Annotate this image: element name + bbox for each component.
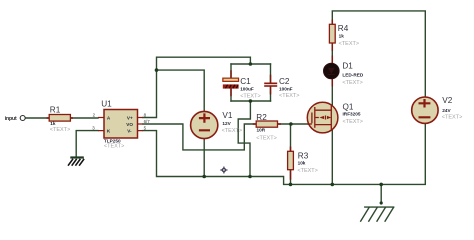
C2 pin stubs	[270, 75, 272, 95]
wire C2 legs	[270, 64, 272, 101]
svg-text:<TEXT>: <TEXT>	[297, 168, 317, 174]
wire cap ground zigzag	[238, 101, 250, 177]
svg-text:<TEXT>: <TEXT>	[279, 93, 299, 99]
svg-text:R1: R1	[50, 106, 61, 115]
svg-text:<TEXT>: <TEXT>	[222, 128, 242, 134]
svg-text:1k: 1k	[50, 121, 56, 126]
svg-text:3: 3	[92, 126, 95, 131]
svg-text:10k: 10k	[298, 161, 306, 166]
svg-text:<TEXT>: <TEXT>	[342, 80, 362, 86]
svg-text:100uF: 100uF	[240, 87, 254, 92]
origin marker diamond	[220, 166, 227, 173]
svg-text:R2: R2	[256, 113, 267, 122]
svg-text:R4: R4	[338, 24, 349, 33]
svg-text:D1: D1	[342, 62, 353, 71]
pin stubs (dark red component pins)	[47, 20, 333, 180]
svg-text:IRF3205: IRF3205	[343, 112, 361, 117]
svg-text:Q1: Q1	[343, 103, 354, 112]
earth ground	[360, 207, 394, 222]
svg-text:6/7: 6/7	[144, 119, 151, 124]
resistor R3	[288, 151, 318, 174]
wire R4 to D1	[331, 43, 333, 64]
svg-text:VO: VO	[126, 122, 133, 127]
wire Q1 source down	[331, 130, 333, 185]
svg-text:V1: V1	[222, 111, 232, 120]
svg-text:C1: C1	[240, 77, 251, 86]
wire R1 to U1 pin A	[70, 117, 98, 119]
svg-text:2: 2	[93, 112, 96, 117]
svg-text:<TEXT>: <TEXT>	[50, 127, 70, 133]
wire D1 to Q1 drain	[331, 79, 333, 106]
svg-text:<TEXT>: <TEXT>	[240, 93, 260, 99]
wire ground tap	[380, 184, 382, 203]
LED D1	[324, 62, 364, 86]
wire C1 legs	[230, 64, 232, 101]
wire V+ branch to V1 plus	[157, 70, 205, 112]
ground (U1 K)	[68, 156, 84, 165]
wire C1 C2 top rail	[231, 63, 271, 65]
wire U1 VO to R2 zigzag	[143, 124, 256, 150]
voltage source V2	[412, 96, 463, 123]
svg-text:<TEXT>: <TEXT>	[442, 115, 462, 121]
svg-text:<TEXT>: <TEXT>	[256, 135, 276, 141]
svg-text:<TEXT>: <TEXT>	[339, 41, 359, 47]
wire C1 C2 bottom rail	[231, 100, 271, 102]
svg-text:input: input	[5, 116, 17, 122]
svg-text:12V: 12V	[222, 121, 231, 126]
svg-text:V2: V2	[442, 96, 452, 105]
C1 pin stubs	[230, 70, 232, 96]
wire U1 pin5 down and ground rail upper	[143, 122, 425, 184]
svg-text:10R: 10R	[257, 128, 266, 133]
resistor R4	[329, 24, 359, 47]
svg-text:<TEXT>: <TEXT>	[343, 119, 363, 125]
wire U1 pin K	[76, 131, 98, 157]
resistor R1	[49, 115, 70, 122]
svg-text:LED-RED: LED-RED	[342, 72, 363, 77]
svg-text:5: 5	[144, 125, 147, 130]
svg-text:U1: U1	[101, 100, 112, 109]
capacitor C1	[223, 77, 261, 99]
svg-text:<TEXT>: <TEXT>	[104, 144, 124, 150]
R2 pin stubs	[253, 123, 281, 125]
svg-text:100nF: 100nF	[279, 87, 293, 92]
svg-text:1k: 1k	[339, 33, 345, 38]
svg-text:8: 8	[144, 112, 147, 117]
wire R2 to Q1 gate	[278, 123, 309, 125]
wire input to R1	[26, 117, 50, 119]
optocoupler U1	[92, 100, 150, 150]
R3 pin stubs	[290, 147, 292, 180]
wire V1 minus down	[203, 138, 205, 176]
voltage source V1	[191, 111, 242, 139]
wire R3 bottom	[290, 170, 292, 185]
svg-text:C2: C2	[279, 77, 290, 86]
capacitor C2	[264, 77, 299, 99]
wire top right rail R4 to V2	[332, 11, 425, 97]
resistor R2	[256, 113, 277, 141]
wire R3 top	[290, 124, 292, 151]
svg-text:V-: V-	[127, 129, 132, 134]
svg-text:R3: R3	[298, 151, 309, 160]
MOSFET Q1	[307, 102, 363, 133]
R4 pin stubs	[331, 20, 333, 52]
R1 pin stubs	[47, 117, 73, 119]
wire U1 pin8 V+ riser	[143, 57, 250, 117]
svg-text:V+: V+	[127, 116, 133, 121]
input terminal	[20, 116, 25, 121]
D1 pin stubs	[331, 56, 333, 87]
svg-text:24V: 24V	[442, 108, 451, 113]
